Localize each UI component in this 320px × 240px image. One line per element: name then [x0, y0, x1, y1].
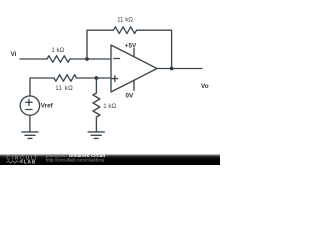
op-amp +5V supply pin: [133, 49, 135, 57]
wire op-amp plus input row: [77, 77, 112, 79]
wire R3 to Vref: [30, 78, 54, 96]
logo square: [20, 160, 23, 163]
source minus sign: [26, 109, 32, 111]
svg-text:Vo: Vo: [201, 83, 209, 90]
svg-text:11 kΩ: 11 kΩ: [55, 85, 73, 92]
resistor R1 1 kOhm horizontal: [47, 56, 70, 63]
op-amp 0V supply pin: [133, 80, 135, 90]
resistor R2 11 kOhm feedback: [114, 27, 137, 34]
svg-text:1 kΩ: 1 kΩ: [51, 47, 64, 54]
svg-text:Vref: Vref: [41, 102, 54, 109]
wire R4 to ground: [95, 117, 97, 132]
wire Vref to ground: [29, 115, 31, 132]
op-amp U1: [111, 45, 157, 92]
svg-text:1 kΩ: 1 kΩ: [103, 103, 116, 110]
svg-text:0V: 0V: [125, 92, 134, 99]
wire feedback up and across: [87, 30, 114, 59]
op-amp plus sign: [112, 76, 118, 82]
footer bar: [0, 154, 220, 165]
wire R4 top: [95, 78, 97, 93]
node junction at output: [170, 67, 174, 71]
logo resistor zigzag: [7, 161, 19, 163]
svg-text:11 kΩ: 11 kΩ: [117, 16, 133, 23]
node junction at feedback tap: [85, 57, 89, 61]
source plus sign: [26, 99, 32, 105]
node junction at R4 tap: [95, 76, 99, 80]
wire Vi to R1: [20, 58, 47, 60]
svg-text:Vi: Vi: [11, 51, 17, 58]
svg-text:http://circuitlab.com/c6akbnnj: http://circuitlab.com/c6akbnnj: [46, 158, 105, 163]
resistor R3 11 kOhm: [54, 75, 77, 82]
ground below R4: [88, 132, 104, 139]
ground below Vref: [22, 132, 38, 139]
wire R1 to op-amp inverting input: [70, 58, 111, 60]
resistor R4 1 kOhm vertical: [93, 93, 100, 117]
svg-text:+5V: +5V: [125, 42, 137, 49]
voltage source Vref: [20, 96, 39, 115]
svg-text:LAB: LAB: [24, 159, 36, 165]
wire output to Vo: [157, 68, 202, 70]
wire R2 to output node: [137, 30, 172, 68]
op-amp minus sign: [114, 58, 120, 60]
